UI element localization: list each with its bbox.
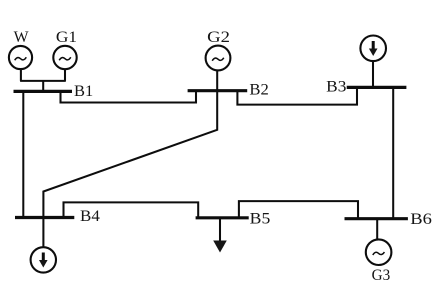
- wire load to B3: [372, 61, 374, 86]
- generator G3: [366, 239, 392, 265]
- generator G1: [53, 46, 76, 69]
- wire G2 to B2 and diagonal to B4: [43, 70, 217, 247]
- load arrow at B5: [213, 218, 227, 253]
- wire B4 to B5: [64, 202, 199, 217]
- bus B4: [15, 216, 74, 219]
- svg-text:G2: G2: [207, 29, 230, 46]
- svg-text:G1: G1: [56, 29, 77, 46]
- wire B1 to B4: [22, 92, 24, 218]
- bus B6: [345, 217, 408, 220]
- bus B3: [347, 86, 407, 89]
- svg-text:G3: G3: [372, 267, 391, 284]
- generator W: [9, 46, 32, 69]
- wire B3 to B6: [392, 88, 394, 219]
- svg-text:W: W: [14, 29, 29, 46]
- svg-text:B4: B4: [80, 208, 100, 225]
- bus B2: [188, 89, 248, 92]
- bus B5: [196, 216, 249, 219]
- generator G2: [206, 46, 231, 71]
- load at B3: [360, 36, 386, 62]
- wire B1 to B2: [61, 91, 197, 103]
- wire B2 to B3: [237, 88, 357, 105]
- svg-text:B5: B5: [250, 211, 271, 228]
- load at B4: [31, 247, 56, 272]
- wire W-G1 connector to B1: [20, 69, 66, 90]
- wire B6 to G3: [376, 219, 378, 240]
- svg-text:B6: B6: [410, 211, 432, 228]
- bus B1: [14, 90, 73, 93]
- svg-text:B1: B1: [74, 83, 93, 100]
- wire B5 to B6: [239, 201, 358, 219]
- svg-text:B3: B3: [326, 79, 346, 96]
- svg-text:B2: B2: [249, 81, 269, 98]
